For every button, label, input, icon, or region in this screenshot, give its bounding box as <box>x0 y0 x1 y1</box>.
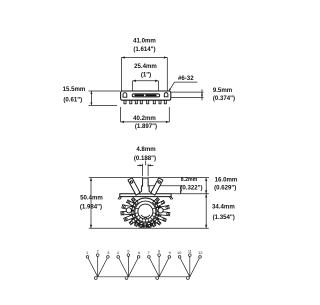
svg-text:16.0mm: 16.0mm <box>215 176 238 183</box>
svg-text:9.5mm: 9.5mm <box>213 87 233 94</box>
svg-text:41.0mm: 41.0mm <box>133 38 156 45</box>
svg-text:34.4mm: 34.4mm <box>212 203 235 210</box>
svg-text:25.4mm: 25.4mm <box>134 63 157 70</box>
svg-text:(0.188"): (0.188") <box>134 155 156 162</box>
svg-text:40.2mm: 40.2mm <box>133 115 156 122</box>
svg-text:3: 3 <box>107 251 109 255</box>
svg-text:8.2mm: 8.2mm <box>181 177 198 183</box>
svg-text:8: 8 <box>158 250 160 254</box>
svg-text:4.8mm: 4.8mm <box>136 146 156 153</box>
svg-text:7: 7 <box>147 251 149 255</box>
svg-text:5: 5 <box>127 250 129 254</box>
svg-text:(1.614"): (1.614") <box>133 46 155 53</box>
svg-text:(1.897"): (1.897") <box>135 123 157 130</box>
svg-text:(0.374"): (0.374") <box>213 95 235 102</box>
svg-text:12: 12 <box>198 251 202 255</box>
svg-text:1: 1 <box>86 251 88 255</box>
svg-text:6: 6 <box>138 251 140 255</box>
svg-text:(1"): (1") <box>141 71 151 78</box>
svg-text:(1.354"): (1.354") <box>213 214 235 221</box>
svg-text:4: 4 <box>117 251 119 255</box>
svg-text:(0.61"): (0.61") <box>63 96 82 103</box>
svg-text:(1.984"): (1.984") <box>80 203 102 210</box>
svg-text:15.5mm: 15.5mm <box>63 86 86 93</box>
svg-text:50.4mm: 50.4mm <box>80 194 103 201</box>
svg-text:(0.322"): (0.322") <box>180 184 202 191</box>
svg-text:2: 2 <box>97 250 99 254</box>
svg-text:(0.629"): (0.629") <box>214 184 236 191</box>
svg-text:#6-32: #6-32 <box>178 75 194 82</box>
svg-text:10: 10 <box>177 251 181 255</box>
svg-text:11: 11 <box>188 250 192 254</box>
svg-text:9: 9 <box>169 251 171 255</box>
